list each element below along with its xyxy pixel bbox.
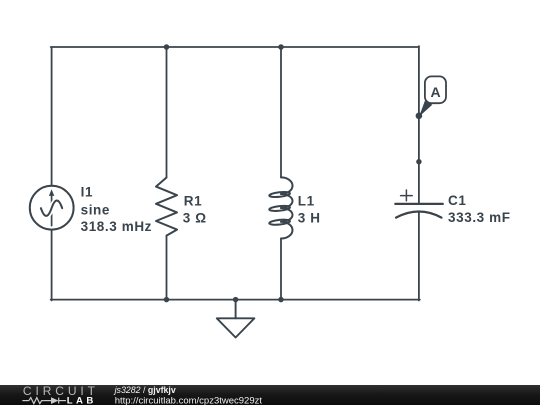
junction dot R1 top: [164, 44, 170, 50]
wire top rail: [51, 46, 419, 48]
wire right rail lower (C1 bottom lead): [418, 211, 420, 300]
svg-text:http://circuitlab.com/cpz3twec: http://circuitlab.com/cpz3twec929zt: [115, 395, 263, 405]
inductor L1: [269, 177, 292, 238]
svg-text:LAB: LAB: [67, 395, 97, 405]
junction dot R1 bottom: [164, 297, 170, 303]
junction dot L1 bottom: [278, 297, 284, 303]
wire left rail lower (I1 bottom lead): [51, 230, 53, 301]
capacitor C1: [395, 204, 443, 218]
wire L1 top lead: [280, 47, 282, 177]
junction dot ground: [233, 297, 239, 303]
junction dot L1 top: [278, 44, 284, 50]
wire bottom rail: [51, 299, 420, 301]
wire R1 bottom lead: [166, 236, 168, 300]
footer bar: [0, 385, 540, 405]
resistor R1: [156, 178, 177, 236]
wire right rail upper (C1 top lead): [418, 46, 420, 204]
current source I1: [30, 186, 74, 230]
wire R1 top lead: [166, 47, 168, 178]
svg-text:js3282 / gjvfkjv: js3282 / gjvfkjv: [114, 385, 176, 395]
ammeter probe A: [419, 76, 446, 116]
ground: [217, 300, 255, 338]
capacitor C1 plus polarity mark: [401, 190, 413, 201]
junction dot probe attach: [416, 113, 423, 120]
wire left rail upper (I1 top lead): [51, 48, 53, 185]
node dot right rail: [416, 159, 421, 164]
wire L1 bottom lead: [280, 239, 282, 300]
